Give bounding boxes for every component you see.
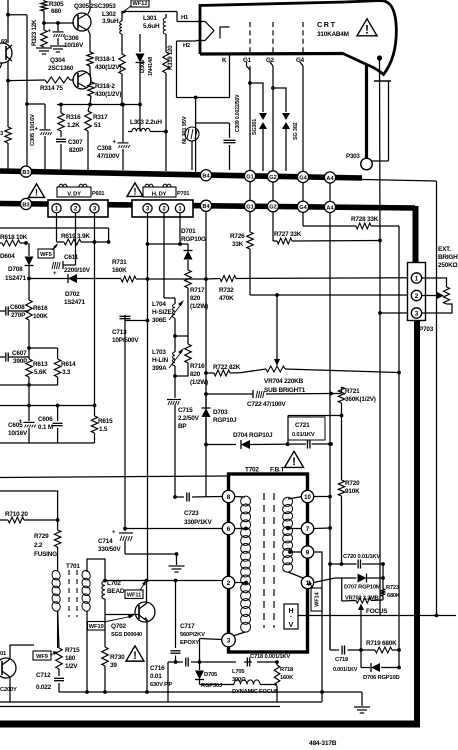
svg-text:310KAB4M: 310KAB4M (317, 31, 349, 38)
svg-text:R317: R317 (93, 114, 108, 121)
svg-text:R721: R721 (345, 388, 360, 395)
wire G1 spark-gap hook (250, 83, 263, 112)
svg-text:Q305 2SC3953: Q305 2SC3953 (74, 3, 116, 10)
wire down to y=104 rail (120, 74, 124, 106)
wire pin9 right then down x=322 (314, 552, 322, 702)
wire C305 branch from x=27 rail (27, 103, 45, 105)
spark gap SG302 (282, 113, 299, 171)
wire D706 rail y=667.5 (361, 666, 401, 670)
svg-text:300Ω: 300Ω (232, 677, 246, 683)
T701 primary winding (51, 569, 62, 612)
svg-text:EPOXY: EPOXY (180, 640, 199, 646)
svg-text:D706 RGP10D: D706 RGP10D (363, 675, 399, 681)
wire x=175 H-size chain (164, 298, 175, 304)
wire VR704 arm from G1 net (274, 295, 280, 366)
svg-text:L704: L704 (152, 301, 166, 308)
svg-text:10P/500V: 10P/500V (112, 337, 139, 344)
svg-text:(1/2W): (1/2W) (190, 303, 208, 310)
boxed label WF9 with arrow (33, 651, 58, 660)
wire rail y=278.5 (video bias) (27, 277, 121, 281)
svg-text:R614: R614 (61, 361, 76, 368)
capacitor C720 0.01/1KV rail (328, 562, 385, 566)
node B3 on bus2 (20, 198, 31, 209)
inductor L301 5.6uH (143, 15, 166, 34)
svg-text:C307: C307 (68, 139, 83, 146)
svg-text:630V P.P: 630V P.P (150, 682, 172, 688)
svg-text:D703: D703 (213, 409, 228, 416)
boxed label WF12 with arrow (121, 0, 149, 14)
svg-text:2SC1360: 2SC1360 (48, 65, 74, 72)
svg-text:R618 10K: R618 10K (0, 234, 28, 241)
svg-text:EXT.: EXT. (438, 246, 451, 253)
thick border bottom (0, 721, 420, 728)
svg-text:C309 0.0022/50V: C309 0.0022/50V (235, 94, 241, 132)
capacitor C712 0.022 (36, 669, 64, 692)
wire L303 left stub (128, 131, 132, 133)
node B3 on bus1 (20, 166, 31, 177)
svg-text:R731: R731 (112, 259, 127, 266)
boxed label WF11 with arrow (125, 580, 147, 599)
svg-text:R715: R715 (65, 647, 80, 654)
svg-text:BP: BP (178, 423, 187, 430)
wire P701 pin1 down (179, 213, 181, 244)
wire G1 rail to P703 pin2 (250, 249, 408, 295)
resistor R730 39 (102, 615, 125, 693)
wire pin3 rail y=637 (200, 639, 222, 663)
svg-text:3.3: 3.3 (62, 369, 71, 376)
wire long rail y=477.5 (0, 476, 229, 478)
wire rail y=444 with D704 and C721 (204, 442, 333, 446)
wire L702 to Q702 base (105, 599, 139, 615)
svg-text:!: ! (133, 650, 137, 662)
neon lamp NL301 95V (182, 116, 199, 170)
wire pin10 to secondary top (288, 497, 302, 500)
node junction at (195.6,97.5) (194, 96, 198, 100)
wire rail y=662 (C716/C718) (168, 660, 279, 664)
capacitor C713 10P/500V (112, 315, 139, 344)
svg-text:R615: R615 (98, 418, 113, 425)
node junction C714 (125,528) (123, 527, 127, 531)
svg-text:360K(1/2V): 360K(1/2V) (345, 396, 376, 403)
wire rail continues to R732 (148, 277, 208, 281)
connector P303 (346, 153, 372, 170)
node G1 on bus2 (244, 200, 255, 211)
svg-text:C719: C719 (335, 657, 349, 663)
wire rail y=443 (0, 442, 95, 444)
svg-text:Q304: Q304 (50, 57, 65, 64)
thick border right side upper (from bus2 corner) (413, 206, 419, 263)
svg-text:R727 33K: R727 33K (274, 231, 302, 238)
wire pin2 tap (235, 581, 248, 585)
wire x=175 down to C715 (174, 376, 176, 398)
resistor R616 100K (26, 274, 48, 320)
svg-text:!: ! (35, 187, 38, 198)
svg-text:8: 8 (227, 494, 231, 501)
svg-text:160K: 160K (280, 675, 294, 681)
resistor R318-1 430(1/2V) (87, 52, 122, 71)
wire x=195.6 from node down to bus1 (195, 98, 197, 176)
wire H1 feed y=12 from x=122 to x=177 (122, 11, 177, 13)
node junction at (8,15) (6, 13, 10, 17)
svg-text:C605: C605 (8, 422, 23, 429)
svg-text:RGP10G: RGP10G (181, 236, 206, 243)
svg-text:C718 0.001/1KV: C718 0.001/1KV (250, 654, 290, 660)
resistor R719 680K (366, 640, 397, 653)
connector P703 (408, 263, 426, 321)
svg-text:R730: R730 (110, 654, 125, 661)
pin 3 of P601 (90, 204, 99, 213)
svg-text:T701: T701 (66, 563, 80, 570)
svg-text:G1: G1 (246, 204, 253, 210)
capacitor C605 10/16V (8, 406, 36, 444)
pin 6 of T702 (222, 522, 234, 534)
wire G4 pin down to bus1 (300, 62, 303, 171)
wire x=29 down to rail y=405 (28, 385, 30, 405)
svg-text:C720 0.01/1KV: C720 0.01/1KV (343, 554, 380, 560)
ground bottom right (354, 707, 370, 713)
capacitor C308 47/100V (97, 105, 130, 171)
svg-text:3: 3 (227, 637, 231, 644)
svg-text:BEAD: BEAD (107, 588, 125, 595)
wire L301 to R319 (165, 34, 167, 52)
node junction at (108.6,242) (107, 240, 111, 244)
label 484-317B (309, 740, 337, 747)
spark gap SG301 (252, 113, 267, 171)
resistor R717 820 (1/2W) (185, 270, 208, 310)
svg-text:9: 9 (306, 549, 310, 556)
label EXT. BRIGHT 250K (438, 246, 458, 269)
svg-text:33K: 33K (232, 241, 244, 248)
svg-text:330P/1KV: 330P/1KV (184, 519, 212, 526)
wire pin10 right to A4 rail (314, 495, 332, 499)
svg-text:P701: P701 (177, 191, 189, 197)
wire rail y=405.5 (0, 404, 96, 408)
resistor R721 360K(1/2V) (331, 387, 376, 416)
wire P701 pin3 long rail x=147.5 (147, 213, 149, 581)
boxed label WF14 at pin1 (308, 580, 322, 611)
wire T701 secondary top loop (87, 559, 105, 581)
node junction G2 loop at (273,88) (271, 86, 275, 90)
svg-text:820: 820 (190, 295, 201, 302)
diode D702 1S2471 (64, 274, 85, 306)
svg-text:B3: B3 (22, 170, 29, 176)
svg-text:R613: R613 (33, 361, 48, 368)
svg-text:H. DY: H. DY (152, 192, 167, 198)
wire B4 rail x=206 down (205, 211, 207, 497)
svg-text:C721: C721 (295, 422, 310, 429)
wire rail y=313 to P703 pin3 (378, 311, 407, 315)
CRT bottom edge (thicker) (200, 52, 343, 56)
pin 7 of T702 (301, 522, 313, 534)
thin rail bottom y=702 (0, 701, 322, 703)
resistor R613 5.6K (26, 348, 48, 377)
wire pin7 right to A4 rail (314, 526, 332, 530)
svg-text:2200/10V: 2200/10V (64, 267, 91, 274)
svg-text:820P: 820P (69, 147, 84, 154)
wire x=108.6 from y=228 to R619 rail (108, 228, 110, 242)
grid G1 dashed electrode (249, 22, 251, 52)
wire P601 pin3 down (94, 213, 96, 406)
svg-text:C606: C606 (38, 416, 53, 423)
svg-text:2: 2 (227, 580, 231, 587)
pin 2 of P701 (159, 204, 168, 213)
svg-text:R314 75: R314 75 (40, 85, 63, 92)
wire rail y=394 (sub bright) (204, 392, 333, 396)
svg-text:R716: R716 (190, 363, 205, 370)
svg-text:0.1 M: 0.1 M (38, 424, 53, 431)
node junction at (58,23) (56, 21, 60, 25)
T702 secondary winding (281, 496, 293, 573)
wire R317 bottom to bus1 (87, 131, 89, 172)
warning triangle left of H.DY (127, 183, 143, 198)
wire x=288 down to C721 rail (287, 416, 289, 445)
node G1 on bus1 (244, 170, 255, 181)
svg-text:G1: G1 (243, 57, 252, 64)
label D604 (0, 253, 15, 260)
connector P601 V.DY (48, 184, 108, 217)
transistor Q304 2SC1360 (48, 57, 91, 89)
svg-text:H-LIN: H-LIN (152, 357, 169, 364)
electron gun symbol (196, 22, 214, 41)
svg-text:!: ! (292, 456, 296, 468)
svg-text:G2: G2 (269, 175, 276, 181)
svg-text:B3: B3 (22, 202, 29, 208)
wire rail y=104.5 from R316 to L303 riser (57, 104, 140, 106)
capacitor C718 0.001/1KV (247, 654, 290, 667)
svg-text:1S2471: 1S2471 (5, 275, 26, 282)
wire G1 pin down to bus1 (247, 62, 251, 171)
capacitor C305 10/16V (30, 104, 52, 170)
node junction at (123,104.5) (121, 103, 125, 107)
resistor R305 680 (41, 0, 64, 15)
wire P703 pin2 wiper arrow (422, 292, 444, 299)
svg-text:R319 120: R319 120 (168, 45, 174, 70)
wire bus1 extension to x=436 (362, 180, 437, 182)
svg-text:01: 01 (0, 651, 7, 657)
svg-text:R722 82K: R722 82K (213, 364, 241, 371)
svg-text:VR703 2.2MB: VR703 2.2MB (345, 596, 379, 602)
svg-text:250KΩ: 250KΩ (438, 262, 457, 269)
inductor L303 2.2uH (130, 119, 162, 132)
svg-text:C714: C714 (98, 538, 113, 545)
wire K return rail y=97.5 (177, 97, 230, 99)
svg-text:H1: H1 (181, 15, 189, 21)
svg-text:L301: L301 (143, 15, 157, 22)
wire x=8 down from node (8,81) (7, 81, 9, 127)
resistor R715 180 1/2V (56, 611, 80, 670)
wire G2 pin down (272, 182, 274, 241)
warning triangle above FBT (285, 451, 304, 468)
svg-text:H2: H2 (183, 43, 190, 49)
inductor L704 H-SIZE 306E (adjustable) (152, 300, 184, 324)
svg-text:430(1/2V): 430(1/2V) (95, 64, 121, 71)
svg-text:270P: 270P (11, 312, 26, 319)
T702 primary winding (239, 495, 252, 634)
resistor R716 820 (1/2W) (175, 336, 208, 386)
transistor Q701 2SC200Y (left edge) (0, 651, 17, 693)
T702 core dashed lines (264, 493, 274, 628)
anode cap symbol (372, 81, 391, 161)
wire A4 pin long rail x=330 (329, 184, 331, 651)
boxed label WF5 with arrow (38, 243, 58, 258)
label T702 (245, 467, 259, 474)
pin 3 of T702 (222, 633, 236, 647)
ground below R323 (36, 48, 52, 54)
svg-text:7: 7 (306, 526, 310, 533)
svg-text:C715: C715 (178, 407, 193, 414)
svg-text:R717: R717 (190, 287, 205, 294)
svg-text:SG 302: SG 302 (293, 122, 299, 140)
svg-text:5.6uH: 5.6uH (143, 23, 160, 30)
label FOCUS (366, 608, 388, 615)
svg-text:C722 47/100V: C722 47/100V (247, 401, 286, 408)
wire from node (8,15) to x=27 rail (8, 14, 27, 16)
svg-text:R720: R720 (345, 480, 360, 487)
resistor R727 33K (273, 231, 380, 244)
svg-text:K: K (222, 57, 227, 64)
box around C721 label (288, 417, 325, 440)
svg-text:!: ! (133, 186, 136, 197)
warning triangle near CRT (357, 19, 377, 36)
pin 1 of T702 (301, 576, 313, 588)
thick border right side (below P703) (414, 321, 420, 728)
svg-text:NL301 95V: NL301 95V (182, 116, 188, 144)
node junction at (90,104) (88, 103, 92, 107)
svg-text:3: 3 (415, 310, 419, 317)
svg-text:C712: C712 (36, 672, 51, 679)
resistor R316 1.2K (58, 105, 81, 132)
svg-text:560P/2KV: 560P/2KV (180, 632, 205, 638)
wire P701 pin2 down (163, 213, 165, 298)
svg-text:R616: R616 (33, 305, 48, 312)
bus B3-B4 upper (thick) (0, 171, 362, 178)
wire x=383 down to focus node (381, 564, 385, 580)
wire R729 to T701 primary (57, 547, 59, 571)
svg-text:69: 69 (1, 39, 8, 45)
svg-text:1: 1 (415, 275, 419, 282)
svg-text:6: 6 (227, 526, 231, 533)
svg-text:47/100V: 47/100V (97, 153, 120, 160)
wire Q701 emitter down (9, 677, 11, 702)
svg-text:R323 12K: R323 12K (31, 19, 38, 46)
wire anode sense x=380 down (378, 58, 382, 242)
pin label K (222, 57, 227, 64)
thin rail bottom y=706.5 (0, 706, 280, 708)
connector P701 H.DY (132, 184, 193, 217)
svg-text:D604: D604 (0, 253, 15, 260)
capacitor C714 330/50V (98, 529, 133, 555)
diode D707 RGP10M (344, 574, 383, 591)
svg-text:R318-2: R318-2 (95, 83, 115, 90)
svg-text:5.6K: 5.6K (34, 369, 47, 376)
wire Q701 collector up (10, 645, 34, 659)
svg-text:D705: D705 (204, 672, 218, 678)
wire Q702 collector (146, 581, 148, 604)
wire pin1 to secondary bottom (288, 572, 303, 578)
svg-text:SUB BRIGHT1: SUB BRIGHT1 (264, 387, 306, 394)
svg-text:51: 51 (94, 122, 101, 129)
pin 3 of P701 (143, 204, 152, 213)
svg-text:V: V (289, 622, 294, 629)
capacitor C723 330P/1KV (184, 493, 212, 527)
svg-text:39: 39 (110, 662, 117, 669)
capacitor C307 820P (56, 131, 84, 170)
svg-text:820: 820 (190, 371, 201, 378)
wire R619 to node x=108.6 (93, 240, 109, 244)
svg-text:680K: 680K (387, 593, 401, 599)
node A4 on bus1 (324, 172, 335, 183)
wire node(44,23) to Q305 base (44, 22, 74, 24)
wire G4 pin down (302, 183, 304, 226)
pin label G1 (243, 57, 252, 64)
svg-text:A4: A4 (326, 205, 334, 211)
svg-text:B4: B4 (202, 174, 210, 180)
svg-text:L302: L302 (102, 11, 116, 18)
svg-text:399A: 399A (152, 365, 167, 372)
svg-text:R728 33K: R728 33K (351, 216, 379, 223)
svg-text:306E: 306E (152, 317, 167, 324)
resistor R720 910K (338, 416, 360, 565)
wire H1 riser and heater lead H1 (177, 12, 196, 22)
resistor R710 20 (0, 511, 59, 523)
svg-text:R305: R305 (49, 1, 64, 8)
svg-text:L703: L703 (152, 349, 166, 356)
svg-text:C200Y: C200Y (0, 687, 17, 693)
wire Q702 emitter (146, 621, 148, 692)
svg-text:2: 2 (415, 293, 419, 300)
diode D703 RGP10J (202, 394, 237, 445)
svg-text:3.9uH: 3.9uH (102, 18, 119, 25)
resistor R618 10K (0, 234, 28, 246)
wire CRT aquadag thick to P303 (365, 64, 368, 158)
node G4 on bus2 (297, 201, 308, 212)
wire L301 top stub (165, 14, 167, 18)
svg-text:WF12: WF12 (133, 1, 148, 7)
svg-text:0.001/1KV: 0.001/1KV (333, 667, 358, 673)
pin 1 of P701 (175, 204, 184, 213)
resistor R722 82K (204, 364, 241, 376)
resistor R718 160K (274, 662, 294, 702)
transformer T701 label (66, 563, 80, 570)
wire focus rail y=650 (C719/R719) (330, 648, 401, 652)
diode D701 RGP10G (181, 228, 206, 270)
wire rail y=348 to R614 (29, 347, 58, 349)
node junction at (44,23) (42, 21, 46, 25)
svg-text:!: ! (365, 22, 369, 36)
wire riser x=140 y=104.5 to L303 (139, 105, 141, 132)
diode D704 RGP10J (233, 432, 273, 449)
svg-text:0.022: 0.022 (36, 684, 52, 691)
wire riser x=122 from y=11 (121, 11, 123, 21)
svg-text:L705: L705 (232, 669, 245, 675)
wire x=175.5 from drive rail down (175, 581, 177, 649)
svg-text:VR704 220KB: VR704 220KB (264, 378, 304, 385)
node junction at (140,104.5) (138, 103, 142, 107)
CRT envelope outline (200, 1, 396, 75)
wire T701 secondary bottom (86, 611, 88, 692)
node junction at (26,243) (24, 241, 28, 245)
wire Q305 collector to top edge (88, 0, 90, 14)
pin 10 of T702 (301, 490, 313, 502)
grid G2 dashed electrode (272, 22, 274, 52)
pin label G4 (296, 57, 305, 64)
svg-text:Q702: Q702 (111, 623, 126, 630)
svg-text:G2: G2 (269, 205, 276, 211)
resistor R318-2 430(1/2V) (88, 71, 122, 98)
svg-text:C611: C611 (64, 254, 79, 261)
svg-text:1.5: 1.5 (99, 426, 108, 433)
transistor Q301 (left edge, partially cut) (0, 39, 12, 63)
